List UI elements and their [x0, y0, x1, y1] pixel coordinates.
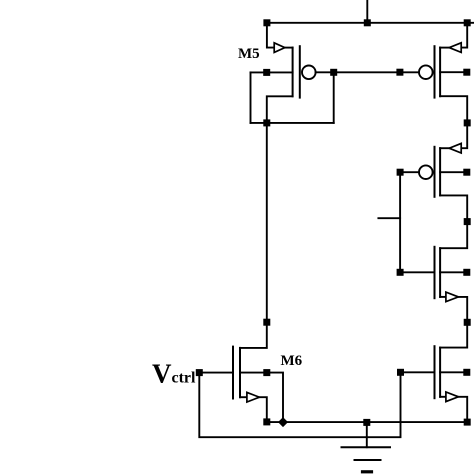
transistor M5 channel plate — [292, 48, 294, 97]
svg-text:M5: M5 — [238, 46, 260, 62]
junction: U2 gate corner — [397, 169, 404, 176]
wire: right PMOS U1 source lead — [461, 23, 467, 48]
junction: U2 body terminal — [463, 169, 470, 176]
wire: U2 drain arm down to node — [440, 195, 467, 248]
junction: output column dot — [263, 319, 270, 326]
wire: M6 gate wire from Vctrl — [199, 372, 233, 374]
transistor U2 source arrow — [449, 143, 461, 153]
junction: U4 body terminal — [463, 369, 470, 376]
wire: bottom source rail — [267, 421, 467, 423]
wire: U1 body wire — [440, 71, 464, 73]
junction: U3 gate dot — [397, 269, 404, 276]
wire: U2 body wire — [440, 171, 464, 173]
wire: M6 source to bottom rail — [259, 397, 266, 422]
junction: M6 body-source diamond — [278, 417, 288, 427]
junction: right rail node 2 — [464, 218, 471, 225]
junction: Vctrl terminal — [196, 369, 203, 376]
junction: right rail node 3 — [464, 319, 471, 326]
junction: M6 source node — [263, 418, 270, 425]
transistor U3 channel plate — [439, 248, 441, 297]
transistor U3 source arrow — [446, 292, 459, 302]
transistor U1 channel plate — [439, 48, 441, 97]
junction: gate bus dot — [396, 69, 403, 76]
transistor M6 source arrow — [247, 392, 260, 402]
wire: M6 source arm — [240, 396, 247, 398]
junction: M6 body dot — [263, 369, 270, 376]
wire: U4 body wire — [440, 371, 464, 373]
junction: bottom rail right — [464, 419, 471, 426]
wire: U4 gate wire — [401, 371, 435, 373]
wire: M5 gate-to-drain tie — [333, 72, 335, 123]
wire: U3 gate wire — [400, 271, 434, 273]
wire: gate bus M5 to right PMOS — [316, 71, 419, 73]
wire: U2 gate wire — [400, 171, 419, 173]
ground: bar 2 — [355, 459, 381, 461]
wire: M5 body wire — [251, 71, 293, 73]
svg-text:M6: M6 — [281, 353, 303, 369]
ground: bar 3 — [363, 470, 372, 473]
junction: right rail node 1 — [464, 119, 471, 126]
junction: VDD rail middle — [364, 19, 371, 26]
junction: gate bus T at M5 drain tie — [330, 69, 337, 76]
svg-text:Vctrl: Vctrl — [152, 359, 196, 389]
ground: bar 1 — [342, 446, 391, 448]
wire: U3 source arm — [440, 296, 446, 298]
transistor U2 gate plate — [434, 147, 436, 197]
transistor U2 PMOS bubble — [419, 165, 433, 179]
transistor M5 source arrow — [274, 43, 285, 53]
wire: output column M5 drain to M6 drain — [240, 123, 267, 348]
wire: U4 source arm — [440, 396, 446, 398]
transistor U2 channel plate — [439, 148, 441, 195]
wire: U3 body wire — [440, 271, 464, 273]
transistor M5 PMOS bubble — [302, 66, 316, 80]
transistor M6 gate plate — [232, 347, 234, 399]
wire: bias input stub — [378, 217, 400, 219]
wire: VDD top rail — [267, 22, 474, 24]
transistor U4 channel plate — [439, 348, 441, 397]
junction: ground node — [363, 419, 370, 426]
junction: U3 body terminal — [463, 269, 470, 276]
wire: U3 source to rail — [440, 297, 467, 348]
transistor M5 gate plate — [299, 46, 301, 97]
transistor U1 gate plate — [434, 46, 436, 97]
junction: VDD rail right — [464, 19, 471, 26]
wire: VDD stub to top edge — [366, 0, 368, 23]
junction: U1 body terminal — [463, 69, 470, 76]
transistor M6 channel plate — [239, 348, 241, 397]
wire: M5 source arm — [285, 47, 293, 49]
transistor U1 PMOS bubble — [419, 65, 433, 79]
wire: U1 drain arm down right rail — [440, 96, 467, 148]
wire: M6 body wire — [240, 373, 283, 423]
ground: stub — [366, 422, 368, 447]
wire: U4 source to bottom rail — [458, 397, 467, 422]
wire: Vctrl gate bus down and right — [199, 372, 400, 437]
junction: VDD rail left — [263, 19, 270, 26]
wire: U1 source arm — [440, 47, 449, 49]
wire: M5 drain node line — [251, 122, 334, 124]
wire: M5 source lead from rail — [267, 23, 274, 48]
junction: M5 drain node — [263, 119, 270, 126]
transistor U4 gate plate — [434, 346, 436, 398]
wire: gate tie U2-U3 — [399, 172, 401, 272]
wire: M5 body loop down — [250, 72, 252, 123]
wire: M5 drain arm — [267, 96, 293, 123]
junction: M5 body dot — [263, 69, 270, 76]
transistor U3 gate plate — [434, 247, 436, 298]
transistor U4 source arrow — [446, 392, 459, 402]
junction: U4 gate dot — [397, 369, 404, 376]
transistor U1 source arrow — [449, 43, 461, 53]
wire: U2 source arm — [440, 147, 449, 149]
